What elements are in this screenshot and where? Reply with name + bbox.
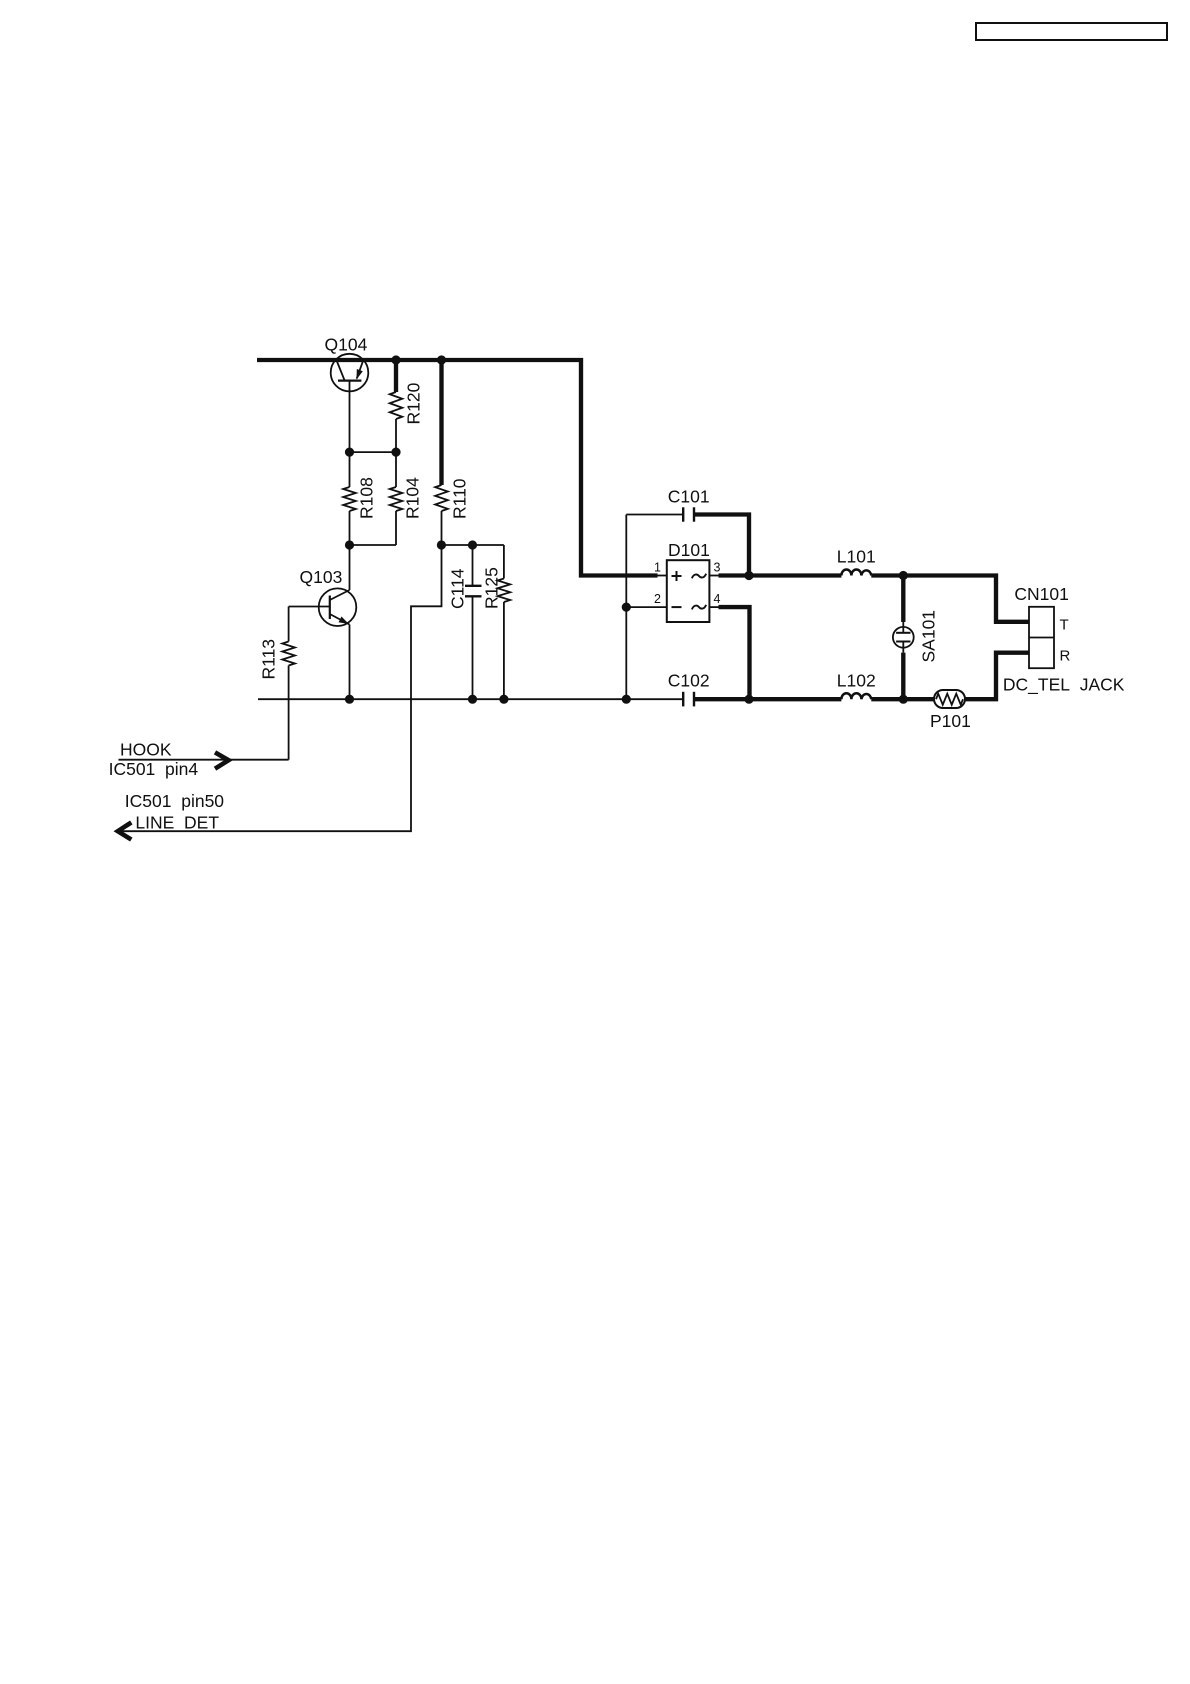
svg-text:C114: C114	[448, 568, 468, 609]
svg-text:R113: R113	[259, 639, 279, 680]
svg-text:C101: C101	[668, 486, 710, 506]
svg-text:T: T	[1060, 616, 1069, 633]
svg-text:DC_TEL JACK: DC_TEL JACK	[1003, 675, 1125, 696]
svg-text:L102: L102	[837, 670, 876, 690]
svg-text:IC501 pin4: IC501 pin4	[109, 759, 199, 779]
svg-text:Q103: Q103	[300, 567, 343, 587]
svg-text:2: 2	[654, 592, 661, 606]
svg-text:Q104: Q104	[325, 334, 368, 354]
svg-text:R120: R120	[404, 382, 424, 424]
svg-text:HOOK: HOOK	[120, 740, 172, 760]
svg-text:R104: R104	[403, 477, 423, 519]
svg-text:L101: L101	[837, 546, 876, 566]
svg-text:CN101: CN101	[1014, 584, 1068, 604]
svg-text:R110: R110	[450, 478, 470, 519]
svg-text:SA101: SA101	[919, 610, 939, 663]
svg-text:R: R	[1060, 647, 1071, 664]
svg-text:4: 4	[714, 592, 721, 606]
svg-text:LINE DET: LINE DET	[135, 812, 219, 832]
svg-text:D101: D101	[668, 540, 710, 560]
svg-text:R108: R108	[357, 477, 377, 519]
svg-text:P101: P101	[930, 711, 971, 731]
svg-text:R125: R125	[482, 567, 502, 609]
svg-text:C102: C102	[668, 670, 710, 690]
svg-text:3: 3	[714, 561, 721, 575]
svg-text:1: 1	[654, 561, 661, 575]
svg-text:IC501 pin50: IC501 pin50	[125, 791, 225, 811]
